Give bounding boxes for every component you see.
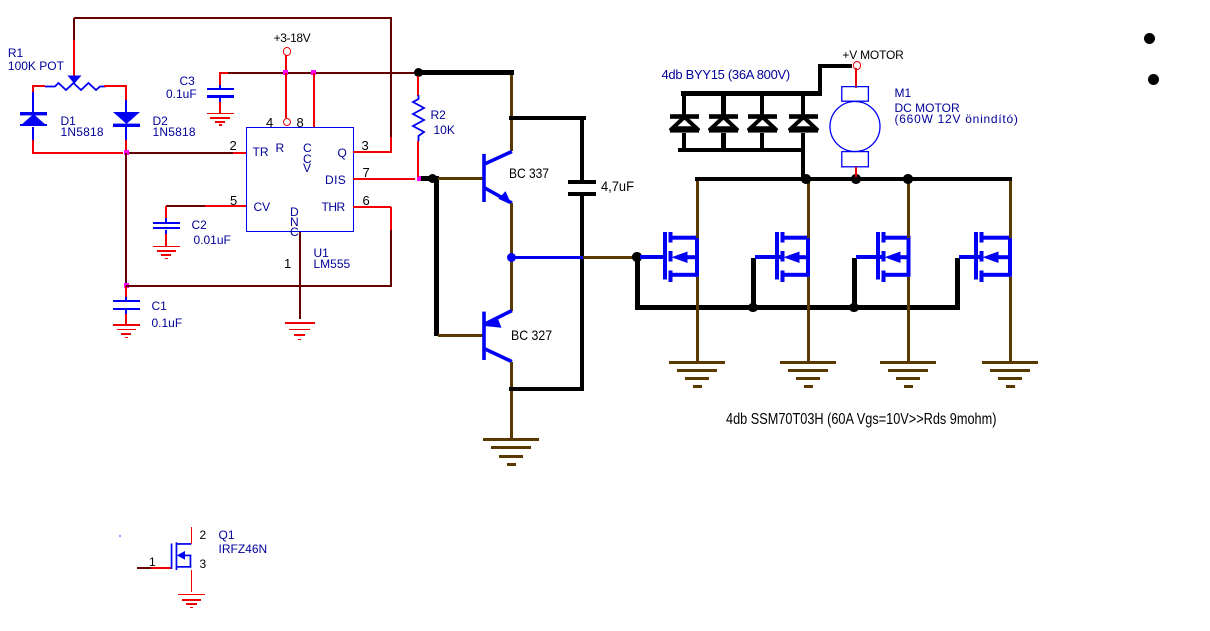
label U1 pin GND: [290, 205, 299, 219]
junction supply/pin8: [311, 70, 316, 75]
wire pin 5 CV to C2: [166, 205, 206, 207]
pin number 2: [230, 138, 237, 153]
wire Q output up to top rail: [390, 18, 392, 138]
wire base lead BC337: [438, 177, 484, 180]
wire gate riser F3: [852, 258, 857, 310]
junction drain rail / motor: [851, 174, 861, 184]
diode DF2 BYY15: [721, 95, 726, 115]
capacitor C 4,7uF: [568, 180, 596, 184]
diode DF4 BYY15: [801, 95, 806, 115]
wire F4 drain: [1009, 180, 1012, 238]
label R1 100K POT: [8, 46, 23, 60]
transistor F1 SSM70T03H (NMOS): [663, 220, 701, 284]
wire F1 source: [696, 277, 699, 361]
wire collector rail to cap (thick): [509, 116, 586, 121]
terminal +3-18V: [283, 47, 291, 55]
transistor F3 SSM70T03H (NMOS): [876, 220, 913, 284]
wire gate lead F3: [856, 255, 882, 259]
pin number 7: [363, 165, 370, 180]
wire +V supply rail: [219, 72, 229, 74]
wire driver output (brown segment): [583, 256, 633, 259]
op-amp U1 LM555 body: [246, 127, 353, 233]
wire pot left terminal: [32, 85, 45, 87]
wire gate bus down: [635, 259, 640, 310]
pin number 3: [362, 138, 369, 153]
label U1 pin TR: [253, 145, 269, 159]
wire D1 anode to bottom rail: [32, 127, 34, 141]
label +V MOTOR: [842, 48, 903, 62]
label C3 0.1uF: [180, 74, 195, 88]
ground F2 source: [780, 361, 836, 364]
wire flyback bank to +V motor (thick): [818, 64, 823, 96]
wire flyback bank bottom rail (thick): [678, 148, 805, 153]
label +3-18V supply: [274, 31, 311, 45]
wire D2 cathode to bottom rail: [125, 127, 127, 141]
junction node TR/D2: [124, 150, 129, 155]
label BC 337: [509, 165, 549, 181]
ground C2: [153, 246, 180, 248]
wire gate riser F4: [955, 258, 960, 310]
label Q1 IRFZ46N: [219, 528, 235, 542]
ground F1 source: [669, 361, 725, 364]
wire supply terminal down to pin 4: [285, 55, 287, 72]
label M1 DC MOTOR (660W 12V onindito): [895, 86, 912, 100]
transistor Q BC337 (NPN): [481, 147, 516, 207]
wire supply node to collector rail (thick): [418, 70, 514, 75]
node A marker dot: [1144, 33, 1155, 44]
resistor R2: [411, 95, 426, 141]
wire bottom rail to TR pin 2: [32, 152, 123, 154]
label D1 1N5818: [61, 114, 76, 128]
label 4db BYY15 (36A 800V): [662, 67, 790, 82]
ground C1: [113, 324, 140, 326]
wire motor - lead: [855, 167, 857, 177]
wire gate riser F2: [751, 258, 756, 310]
capacitor C1: [125, 286, 127, 302]
wire drain rail (thick): [695, 177, 1012, 182]
junction drain rail / F3 drain: [903, 174, 913, 184]
wire Q1 drain: [191, 527, 193, 544]
wire pot right terminal: [104, 85, 127, 87]
wire D junction down to C1/THR node: [125, 153, 127, 286]
label BC 327: [511, 327, 552, 343]
junction drain rail / flyback bank: [801, 174, 811, 184]
pin number 4: [266, 115, 273, 130]
transistor Q BC327 (PNP): [481, 305, 516, 365]
wire base lead BC327: [438, 334, 484, 337]
label U1 pin CV: [254, 200, 271, 214]
junction supply/pin4: [283, 70, 288, 75]
capacitor C2: [165, 218, 167, 223]
wire flyback bank to drain rail (thick): [801, 150, 806, 177]
wire pin 7 DIS: [353, 178, 415, 180]
diode D2: [111, 111, 142, 128]
label U1 pin DIS: [325, 173, 346, 187]
pin number 8: [297, 115, 304, 130]
label U1 pin Q: [338, 146, 347, 160]
wire pin 3 Q output: [353, 151, 391, 153]
label D2 1N5818: [153, 114, 168, 128]
junction driver output node: [507, 253, 516, 262]
motor M1 DC MOTOR: [828, 86, 882, 168]
wire flyback bank top rail (thick): [681, 91, 822, 96]
junction gate bus F2: [748, 303, 758, 313]
wire BC337 collector drop: [510, 75, 513, 152]
wire Q1 source: [191, 570, 193, 593]
ground BC327 emitter: [483, 438, 539, 441]
transistor F4 SSM70T03H (NMOS): [974, 220, 1014, 284]
ground U1 pin 1: [285, 322, 315, 324]
wire BC337 emitter to BC327 collector: [510, 203, 513, 311]
wire D2 anode branch: [125, 85, 127, 102]
wire base bus vertical (thick): [434, 176, 439, 335]
transistor F2 SSM70T03H (NMOS): [775, 220, 812, 284]
wire DIS node into base bus (thick): [421, 176, 433, 181]
node B marker dot: [1148, 74, 1159, 85]
diode DF3 BYY15: [760, 95, 765, 115]
capacitor C3: [219, 73, 221, 89]
terminal pin 4 reset: [283, 118, 291, 126]
junction gate bus F3: [849, 303, 859, 313]
wire cap top lead (thick): [580, 118, 585, 180]
wire F3 source: [907, 277, 910, 361]
pin number 5: [230, 193, 237, 208]
wire pot wiper to top rail: [73, 18, 75, 41]
wire F2 drain: [807, 180, 810, 238]
wire F2 source: [807, 277, 810, 361]
wire emitter rail to cap (thick): [509, 387, 584, 392]
wire THR down to C1 node: [390, 207, 392, 231]
wire driver output (blue): [511, 256, 583, 259]
junction node C1/THR: [124, 283, 129, 288]
wire gate lead F4: [959, 255, 980, 259]
transistor Q1 IRFZ46N (NMOS): [169, 540, 194, 571]
label 4,7uF: [601, 178, 634, 194]
wire gate lead F1: [640, 255, 667, 259]
pin number 6: [363, 193, 370, 208]
label 4db SSM70T03H: [726, 411, 996, 429]
potentiometer R1 resistor body: [44, 80, 108, 93]
terminal +V MOTOR: [853, 61, 861, 69]
wire cap bottom lead (thick): [580, 196, 585, 392]
pin number 3 Q1: [200, 557, 207, 571]
label U1 pin R: [276, 141, 285, 155]
wire pin 1 GND down: [299, 232, 301, 319]
wire F3 drain: [907, 180, 910, 238]
wire Q1 gate lead: [137, 567, 152, 569]
wire gate bus horizontal: [635, 305, 960, 310]
junction gate bus node: [632, 252, 642, 262]
wire BC327 emitter down to ground: [510, 362, 513, 439]
wire R2 bottom to DIS node: [417, 141, 419, 177]
wire motor + lead: [855, 68, 857, 88]
stray dot: [119, 535, 121, 537]
wire F4 source: [1009, 277, 1012, 361]
ground F3 source: [880, 361, 936, 364]
wire top rail (pot wiper to Q pin3 vertical): [74, 17, 392, 19]
wire supply to pin 8: [313, 73, 315, 127]
ground F4 source: [982, 361, 1038, 364]
label U1 pin THR: [322, 200, 345, 214]
label R2 10K: [431, 108, 446, 122]
junction DIS node: [417, 176, 422, 181]
wire gate lead F2: [755, 255, 781, 259]
wire THR/C1 bottom run: [126, 285, 391, 287]
diode DF1 BYY15: [682, 95, 687, 115]
label C2 0.01uF: [192, 218, 207, 232]
label U1 LM555: [314, 246, 329, 260]
ground C3: [207, 113, 234, 115]
label C1 0.1uF: [152, 299, 167, 313]
potentiometer R1 wiper arrow: [67, 75, 82, 85]
pin number 2 Q1: [200, 528, 207, 542]
pin number 1 Q1: [149, 555, 156, 569]
wire F1 drain: [696, 180, 699, 238]
pin number 1: [284, 256, 291, 271]
wire R2 top: [417, 76, 419, 96]
wire pin 6 THR: [353, 206, 391, 208]
ground Q1 source: [178, 594, 206, 596]
label U1 pin VCC: [303, 141, 312, 155]
diode D1: [18, 112, 49, 128]
junction base bus: [428, 174, 438, 184]
wire D1 cathode branch: [32, 85, 34, 93]
junction supply/R2 node: [414, 68, 423, 77]
